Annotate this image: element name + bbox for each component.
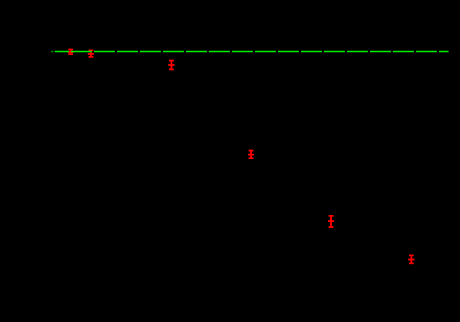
data point 5 error bar (x=331.0): [328, 216, 334, 227]
data point 2 error bar (x=90.9): [88, 50, 94, 57]
data point 4 error bar (x=251.0): [248, 151, 254, 159]
data point 1 error bar (x=70.7): [68, 50, 74, 55]
data points repaint for density: [68, 50, 415, 264]
fit line: green dashed horizontal: [55, 51, 449, 53]
fit line lead-in faint dash: [51, 51, 54, 53]
data points group: [68, 50, 415, 264]
data point 3 error bar (x=171.4): [168, 61, 174, 70]
data point 6 error bar (x=411.3): [408, 255, 414, 263]
